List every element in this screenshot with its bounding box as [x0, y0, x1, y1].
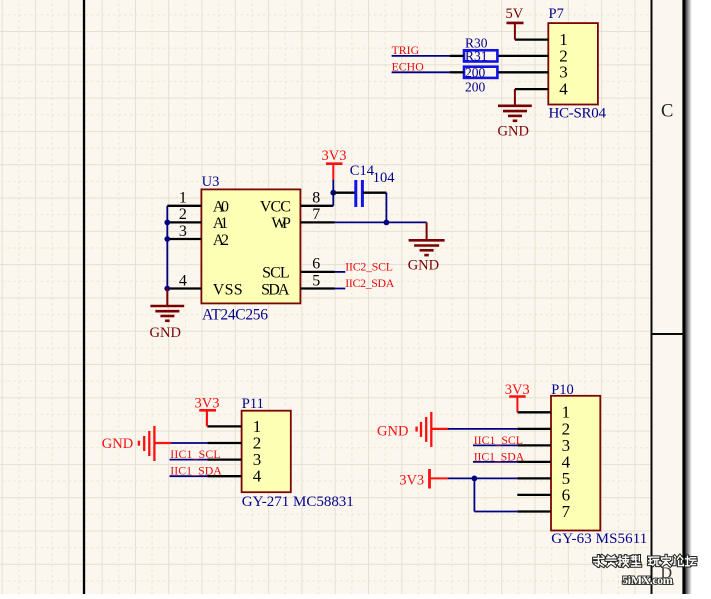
svg-text:5: 5 [312, 272, 320, 289]
wire IIC1_SDA to P10 [473, 461, 517, 463]
U3 pin 3 stub [167, 238, 201, 240]
svg-text:GND: GND [102, 436, 133, 452]
svg-text:IIC1_SCL: IIC1_SCL [170, 447, 220, 461]
wire GND to P11 pin2 [171, 442, 207, 444]
P10 pin 4 stub [517, 461, 551, 463]
svg-text:U3: U3 [202, 174, 220, 190]
svg-text:7: 7 [562, 502, 571, 521]
P11 pin 2 stub [207, 442, 241, 444]
svg-text:3V3: 3V3 [322, 148, 347, 164]
wire WP net [335, 221, 427, 223]
wire 3V3 to junction [332, 180, 334, 193]
power port 5V [506, 6, 524, 40]
zone divider [652, 333, 685, 335]
svg-text:GND: GND [408, 257, 439, 273]
svg-text:TRIG: TRIG [392, 43, 420, 57]
capacitor C14 [356, 180, 363, 207]
resistor R31 body [464, 67, 497, 78]
svg-text:4: 4 [253, 467, 262, 486]
P10 pin 7 stub [517, 510, 551, 512]
U3 pin 8 stub [300, 193, 333, 206]
svg-text:P11: P11 [242, 396, 264, 412]
svg-text:A2: A2 [213, 232, 229, 249]
U3 pin 7 stub [300, 221, 334, 223]
wire 3V3 down to pin7 [474, 478, 517, 511]
wire IIC1_SDA [170, 475, 208, 477]
watermark line 1 (我爱模型 玩家论坛, drawn glyphs) [594, 555, 696, 566]
wire GND to P10 pin2 [448, 428, 517, 430]
svg-text:VCC: VCC [260, 199, 291, 216]
power port 3V3 at C14 [322, 148, 347, 179]
P11 pin 3 stub [207, 458, 241, 460]
svg-text:GND: GND [377, 423, 408, 439]
resistor R31 pin left [450, 71, 464, 73]
connector P7 body [548, 23, 598, 104]
P10 pin 2 stub [517, 428, 551, 430]
P7 pin 4 stub [515, 88, 548, 90]
svg-text:IIC1_SCL: IIC1_SCL [474, 433, 523, 447]
resistor R30 body [464, 50, 497, 61]
svg-text:IIC2_SDA: IIC2_SDA [345, 276, 394, 290]
P7 pin 2 stub [497, 55, 548, 57]
svg-text:VSS: VSS [213, 281, 243, 298]
junction 3V3 net [472, 476, 478, 482]
power ground GND at P11 (bar style) [102, 426, 171, 461]
sheet border left line [83, 0, 85, 594]
wire IIC2_SCL [335, 271, 346, 273]
resistor R30 pin left [450, 55, 464, 57]
svg-text:GND: GND [150, 325, 181, 341]
power ground GND at P10 (bar style) [377, 412, 449, 447]
power port 3V3 at P10 pin5 (bar style) [399, 469, 448, 489]
svg-text:1: 1 [179, 190, 187, 207]
svg-text:A0: A0 [213, 199, 229, 216]
U3 pin 1 stub [167, 205, 201, 207]
ground GND right of U3 [408, 222, 445, 273]
svg-text:A1: A1 [213, 215, 228, 232]
svg-text:GY-63 MS5611: GY-63 MS5611 [551, 531, 647, 547]
svg-text:ECHO: ECHO [392, 59, 425, 73]
svg-text:7: 7 [312, 206, 320, 223]
svg-text:5iMX.com: 5iMX.com [622, 573, 673, 587]
wire IIC1_SCL to P10 [473, 444, 517, 446]
ground GND below U3 [150, 289, 185, 341]
svg-text:SDA: SDA [261, 281, 290, 298]
svg-text:IIC1_SDA: IIC1_SDA [474, 449, 525, 463]
junction WP net [384, 220, 390, 226]
svg-text:R31: R31 [465, 49, 488, 64]
svg-text:C: C [661, 102, 673, 122]
wire C14 to corner [363, 193, 387, 223]
sheet border outer right line [682, 0, 685, 594]
svg-text:3V3: 3V3 [195, 395, 220, 411]
svg-text:HC-SR04: HC-SR04 [549, 106, 607, 122]
U3 pin 4 stub [167, 287, 201, 289]
node 3V3 junction [330, 190, 336, 196]
U3 pin 5 stub [300, 287, 334, 289]
P11 pin 1 stub [207, 425, 241, 427]
svg-text:104: 104 [373, 170, 396, 186]
svg-text:8: 8 [312, 190, 320, 207]
P10 pin 5 stub [517, 477, 551, 479]
svg-text:WP: WP [271, 215, 291, 232]
wire IIC1_SCL [170, 459, 208, 461]
IC U3 body [201, 189, 300, 303]
sheet border inner right line [651, 0, 653, 594]
P10 pin 3 stub [517, 444, 551, 446]
svg-text:2: 2 [179, 206, 187, 223]
connector P11 body [242, 411, 291, 493]
svg-text:3: 3 [179, 223, 187, 240]
P11 pin 4 stub [207, 475, 241, 477]
ground GND at P7 [498, 89, 532, 139]
junction pin3 [164, 236, 170, 242]
power port 3V3 at P11 [195, 395, 220, 426]
wire IIC2_SDA [335, 288, 346, 290]
junction pin4 [164, 286, 170, 292]
svg-text:IIC1_SDA: IIC1_SDA [170, 464, 222, 478]
svg-text:P10: P10 [551, 382, 574, 398]
svg-text:GY-271 MC58831: GY-271 MC58831 [242, 494, 354, 510]
wire 3V3 to pin5 [448, 477, 517, 479]
svg-text:4: 4 [559, 80, 568, 99]
P7 pin 3 stub [497, 71, 548, 73]
svg-text:IIC2_SCL: IIC2_SCL [345, 259, 393, 273]
wire ECHO [392, 71, 450, 73]
P7 pin 1 stub [515, 38, 548, 40]
svg-text:6: 6 [312, 256, 320, 273]
svg-text:5V: 5V [506, 6, 524, 22]
svg-text:3V3: 3V3 [399, 472, 424, 488]
svg-text:C14: C14 [350, 163, 375, 179]
U3 pin 6 stub [300, 271, 334, 273]
P10 pin 1 stub [517, 411, 551, 413]
junction pin2 [164, 220, 170, 226]
wire junction to C14 [333, 192, 355, 194]
P10 pin 6 stub [517, 494, 551, 496]
U3 pin 2 stub [167, 221, 201, 223]
svg-text:GND: GND [498, 124, 529, 140]
svg-text:200: 200 [465, 65, 486, 80]
svg-text:AT24C256: AT24C256 [202, 306, 268, 323]
wire TRIG [392, 55, 450, 57]
wire bus pins 1-4 [166, 206, 168, 289]
power port 3V3 at P10 top [505, 382, 530, 413]
svg-text:200: 200 [465, 79, 486, 94]
connector P10 body [551, 396, 600, 531]
svg-text:SCL: SCL [262, 265, 290, 282]
svg-text:P7: P7 [549, 6, 564, 22]
svg-text:4: 4 [179, 272, 187, 289]
